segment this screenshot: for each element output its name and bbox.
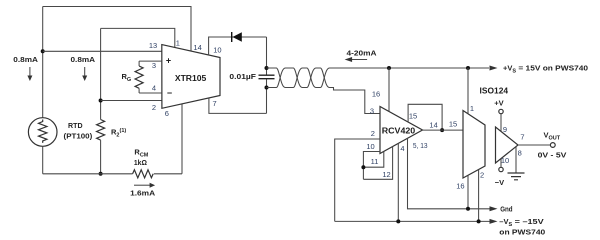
node cap top xyxy=(265,66,269,70)
wire cap vertical xyxy=(266,37,268,113)
arrow Gnd xyxy=(490,206,498,211)
svg-text:0.01µF: 0.01µF xyxy=(229,72,256,81)
terminal -V xyxy=(499,167,503,171)
wire RCV pin15 feedback xyxy=(408,104,442,130)
wire -Vs rail xyxy=(335,220,490,222)
wire left vertical branch xyxy=(42,7,44,118)
svg-text:Gnd: Gnd xyxy=(500,204,513,213)
wire RCV pin11 xyxy=(363,151,383,167)
wire RCV pin16 stub xyxy=(388,68,390,112)
wire pin10 stub ISO xyxy=(500,159,502,168)
svg-text:7: 7 xyxy=(213,99,217,108)
svg-text:ISO124: ISO124 xyxy=(480,87,509,96)
wire pin7 line xyxy=(209,98,267,113)
wire ISO pin1 xyxy=(467,68,469,114)
wire pin3 line xyxy=(139,60,162,62)
resistor R2 xyxy=(97,120,105,141)
svg-text:1: 1 xyxy=(470,104,474,113)
wire R2 branch vertical xyxy=(100,28,102,119)
svg-text:12: 12 xyxy=(382,170,390,179)
terminal +V xyxy=(499,109,503,113)
svg-text:3: 3 xyxy=(370,106,374,115)
svg-text:10: 10 xyxy=(213,46,221,55)
svg-text:4-20mA: 4-20mA xyxy=(347,48,378,57)
svg-text:15: 15 xyxy=(449,120,457,129)
svg-text:+: + xyxy=(166,56,171,66)
svg-text:2: 2 xyxy=(480,171,484,180)
svg-text:14: 14 xyxy=(193,43,201,52)
svg-text:0.8mA: 0.8mA xyxy=(71,55,96,64)
svg-text:15: 15 xyxy=(409,111,417,120)
arrow down left xyxy=(29,67,31,77)
terminal VOUT xyxy=(550,143,555,148)
node pin10-11-12 xyxy=(361,165,365,169)
svg-text:4: 4 xyxy=(152,83,156,92)
svg-text:5, 13: 5, 13 xyxy=(413,141,428,150)
capacitor 0.01uF xyxy=(259,75,275,79)
svg-text:2: 2 xyxy=(152,103,156,112)
wire pin9 stub xyxy=(500,114,502,132)
wire pin13 line xyxy=(43,50,162,52)
node junction bottom rail xyxy=(99,172,103,176)
svg-text:3: 3 xyxy=(152,61,156,70)
wire RCV pin2 xyxy=(335,139,380,221)
wire ISO pin2 xyxy=(478,170,480,222)
wire RCV pin12 xyxy=(363,147,392,180)
wire RCV pin4 xyxy=(397,143,399,221)
RTD (PT100) sensor xyxy=(28,118,57,147)
wire bottom rail left xyxy=(43,173,133,175)
wire RCV output to ISO xyxy=(423,129,464,131)
node -Vs ISO pin2 xyxy=(477,219,481,223)
svg-text:11: 11 xyxy=(371,157,379,166)
svg-text:2: 2 xyxy=(371,129,375,138)
arrow down right xyxy=(84,67,86,77)
wire bottom rail right xyxy=(154,173,182,175)
svg-text:(PT100): (PT100) xyxy=(64,132,93,141)
arrow +Vs xyxy=(490,66,498,71)
twisted pair wire A xyxy=(267,68,490,88)
svg-text:0V - 5V: 0V - 5V xyxy=(538,150,567,159)
svg-text:10: 10 xyxy=(366,142,374,151)
svg-text:16: 16 xyxy=(456,182,464,191)
wire pin6 stub xyxy=(181,104,183,174)
resistor RCM 1k xyxy=(133,170,154,178)
wire R2 bottom lead xyxy=(100,140,102,174)
svg-text:1.6mA: 1.6mA xyxy=(130,189,156,198)
svg-text:8: 8 xyxy=(518,148,522,157)
svg-text:RTD: RTD xyxy=(68,121,83,130)
wire top loop pin14 xyxy=(43,7,191,52)
wire pin1 loop xyxy=(101,28,175,47)
svg-text:16: 16 xyxy=(372,89,380,98)
diode xyxy=(231,32,233,42)
ground xyxy=(508,173,525,180)
wire ISO pin16 xyxy=(467,175,469,208)
node Gnd rail xyxy=(466,207,470,211)
svg-text:−: − xyxy=(167,88,172,98)
svg-text:7: 7 xyxy=(520,133,524,142)
svg-text:on PWS740: on PWS740 xyxy=(499,227,545,236)
svg-text:RCV420: RCV420 xyxy=(382,126,416,135)
svg-text:14: 14 xyxy=(429,120,437,129)
node junction pin2 line xyxy=(99,99,103,103)
resistor RG xyxy=(138,61,140,66)
node -Vs pin4 xyxy=(396,219,400,223)
wire RCV pin10 xyxy=(363,152,380,180)
wire RCV pins5-13 to Gnd rail xyxy=(408,138,491,209)
wire pin2 line xyxy=(101,100,162,102)
arrow 1.6mA xyxy=(134,184,150,186)
svg-text:1: 1 xyxy=(176,38,180,47)
op-amp ISO124 output xyxy=(496,127,519,163)
wire pin8 stub xyxy=(515,147,517,173)
arrow 4-20mA left xyxy=(350,59,367,61)
svg-text:6: 6 xyxy=(165,109,169,118)
svg-text:10: 10 xyxy=(501,156,509,165)
twisted pair wire B xyxy=(267,68,381,114)
node cap bottom xyxy=(265,86,269,90)
buffer ISO124 input side xyxy=(463,111,485,179)
svg-text:9: 9 xyxy=(503,125,507,134)
wire ISO output xyxy=(518,144,550,146)
node junction left xyxy=(41,49,45,53)
svg-text:1kΩ: 1kΩ xyxy=(134,158,147,167)
op-amp RCV420 xyxy=(380,107,423,154)
wire pin4 line xyxy=(139,92,162,94)
wire RTD bottom xyxy=(42,146,44,174)
svg-text:+V: +V xyxy=(494,98,503,107)
svg-text:13: 13 xyxy=(149,41,157,50)
node top wire RCV pin16 xyxy=(387,66,391,70)
svg-text:−V: −V xyxy=(495,178,504,187)
node top wire ISO pin1 xyxy=(466,66,470,70)
node output pin15 xyxy=(440,128,444,132)
arrow -Vs xyxy=(490,219,498,224)
svg-text:XTR105: XTR105 xyxy=(175,74,207,83)
wire pin10 stub + diode wire xyxy=(209,37,267,55)
svg-text:4: 4 xyxy=(400,144,404,153)
op-amp XTR105 xyxy=(162,45,220,109)
svg-text:0.8mA: 0.8mA xyxy=(13,55,38,64)
